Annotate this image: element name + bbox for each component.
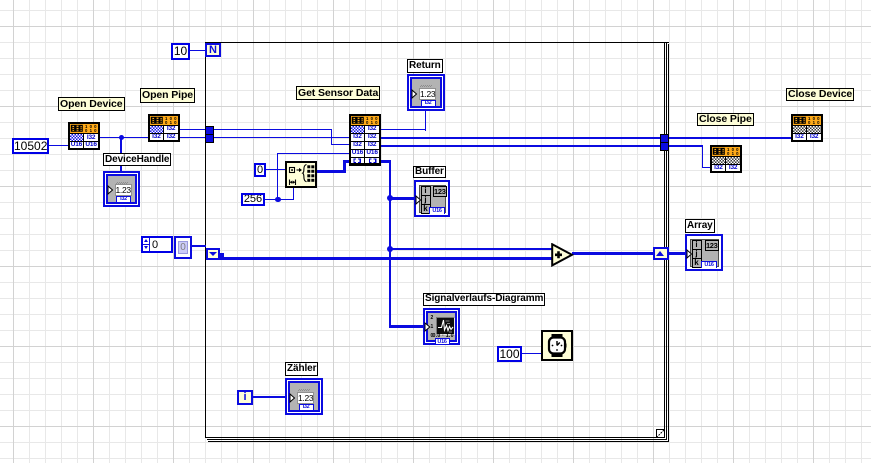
- label Open Pipe: [140, 88, 195, 103]
- left shift register stub: [218, 253, 224, 260]
- thick wire to Array indicator: [668, 252, 685, 255]
- wire bend vertical x332: [331, 129, 332, 145]
- indicator Return: [407, 74, 445, 111]
- thick wire GSD array out: [381, 160, 391, 163]
- indicator Zaehler: [285, 378, 323, 415]
- label Signalverlaufs-Diagramm: [423, 293, 545, 306]
- function Add (+): [551, 243, 574, 267]
- constant 256: [241, 193, 265, 206]
- wire 256 to GSD U16 input: [277, 153, 349, 154]
- label Close Pipe: [697, 113, 754, 126]
- wire up to Return: [425, 111, 426, 131]
- wire Open Device to Open Pipe: [100, 137, 148, 138]
- tunnel right 1: [660, 134, 669, 143]
- label Get Sensor Data: [296, 86, 380, 100]
- svg-text:010: 010: [808, 120, 821, 124]
- thick wire into GSD array input: [343, 160, 349, 163]
- for-loop frame top border: [205, 42, 669, 43]
- wire down to DeviceHandle: [120, 137, 121, 171]
- wire GSD row4 out to tunnel2 right: [381, 145, 703, 146]
- wire tunnel2 to GSD row3: [213, 137, 349, 138]
- indicator DeviceHandle: [103, 171, 140, 207]
- thick wire InitArray out: [317, 170, 346, 173]
- thick vertical wire x390: [389, 160, 392, 328]
- wire close pipe vertical: [702, 145, 703, 168]
- loop count terminal N: [205, 43, 221, 58]
- constant 0 (element): [254, 163, 266, 177]
- wire 10 to N: [190, 50, 205, 51]
- wire const 256 horizontal: [265, 199, 294, 200]
- thick wire to waveform chart: [389, 325, 423, 328]
- label Close Device: [786, 88, 854, 101]
- constant 10: [171, 43, 190, 60]
- array constant element box: [174, 236, 192, 259]
- function Initialize Array: [285, 161, 317, 188]
- junction dot Buffer: [387, 195, 393, 201]
- subVI Open Device: [68, 122, 100, 150]
- wire GSD out row2 to Return bend: [381, 129, 426, 130]
- for-loop frame right shadow line 1: [666, 43, 667, 440]
- thick wire adder out to right shift register: [572, 252, 654, 255]
- label Array: [685, 219, 715, 233]
- svg-text:010: 010: [85, 128, 98, 132]
- thick wire shift register to adder bottom input: [220, 257, 552, 260]
- label Open Device: [58, 97, 125, 111]
- thick wire to adder top input: [390, 248, 552, 251]
- indicator Buffer (array): [414, 180, 450, 217]
- wire 256 vertical up: [277, 153, 278, 199]
- label Return: [407, 59, 443, 73]
- wire Open Pipe out1 to tunnel: [180, 129, 206, 130]
- right shift register (up arrow): [653, 247, 669, 259]
- wire into InitArray bottom: [293, 188, 294, 200]
- for-loop frame left border: [205, 42, 206, 439]
- thick wire InitArray bend up: [343, 160, 346, 173]
- wire GSD row3 out to Close Device: [381, 137, 791, 138]
- wire i terminal to Zaehler: [253, 396, 285, 397]
- svg-text:010: 010: [727, 151, 740, 155]
- wire array constant to left shift register: [192, 245, 206, 247]
- left shift register (down arrow): [206, 248, 221, 259]
- iteration terminal i: [237, 390, 253, 405]
- for-loop frame bottom border main: [205, 437, 665, 438]
- loop resize handle: [656, 429, 665, 438]
- for-loop frame bottom shadow line 1: [207, 439, 668, 440]
- function Wait (ms): [541, 330, 573, 361]
- indicator waveform chart: [423, 308, 460, 345]
- junction dot 256: [275, 197, 281, 203]
- wire tunnel1 into loop horizontal: [213, 129, 332, 130]
- svg-text:010: 010: [366, 120, 379, 124]
- wire Open Pipe out2 to tunnel: [180, 137, 206, 138]
- subVI Get Sensor Data: [349, 114, 381, 166]
- label Buffer: [413, 166, 446, 178]
- indicator Array: [685, 234, 723, 271]
- junction dot DeviceHandle: [119, 135, 124, 140]
- array constant index box: [141, 236, 173, 253]
- junction dot adder: [387, 246, 393, 252]
- wire into GSD row4: [331, 144, 350, 145]
- tunnel right 2: [660, 142, 669, 151]
- wire 10502 to Open Device: [49, 145, 68, 146]
- tunnel left 2: [205, 134, 214, 143]
- subVI Close Device: [791, 114, 823, 142]
- label DeviceHandle: [103, 153, 171, 166]
- wire into Close Pipe: [702, 167, 711, 168]
- wire const 0 to InitArray: [266, 169, 285, 170]
- tunnel left 1: [205, 126, 214, 135]
- constant 10502: [12, 138, 49, 154]
- subVI Close Pipe: [710, 145, 742, 173]
- subVI Open Pipe: [148, 114, 180, 142]
- constant 100: [497, 346, 522, 362]
- svg-text:010: 010: [165, 120, 178, 124]
- thick wire to Buffer: [390, 197, 414, 200]
- for-loop frame right border main: [664, 42, 665, 439]
- for-loop frame right shadow line 2: [668, 44, 669, 442]
- label Zaehler: [285, 362, 318, 376]
- wire 100 to Wait: [522, 353, 541, 354]
- for-loop frame bottom shadow line 2: [208, 441, 669, 442]
